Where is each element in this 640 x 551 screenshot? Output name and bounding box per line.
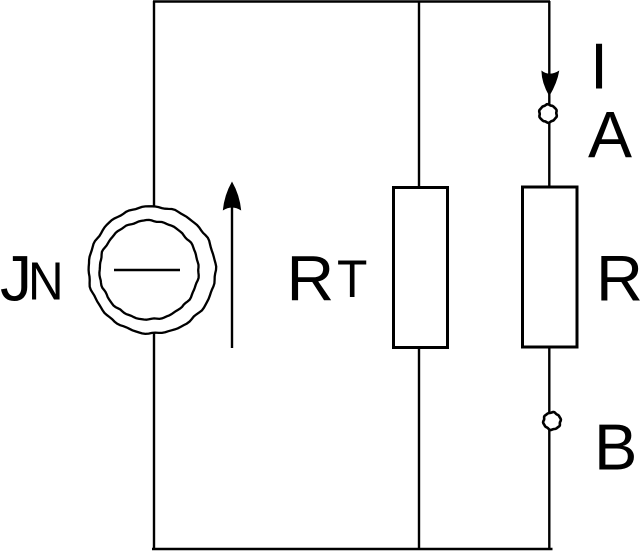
svg-text:I: I [590,30,608,103]
svg-text:A: A [588,98,632,172]
svg-text:R: R [287,243,335,315]
svg-text:R: R [596,242,640,315]
svg-text:T: T [337,250,367,309]
svg-text:B: B [594,411,637,484]
svg-text:N: N [28,252,64,312]
